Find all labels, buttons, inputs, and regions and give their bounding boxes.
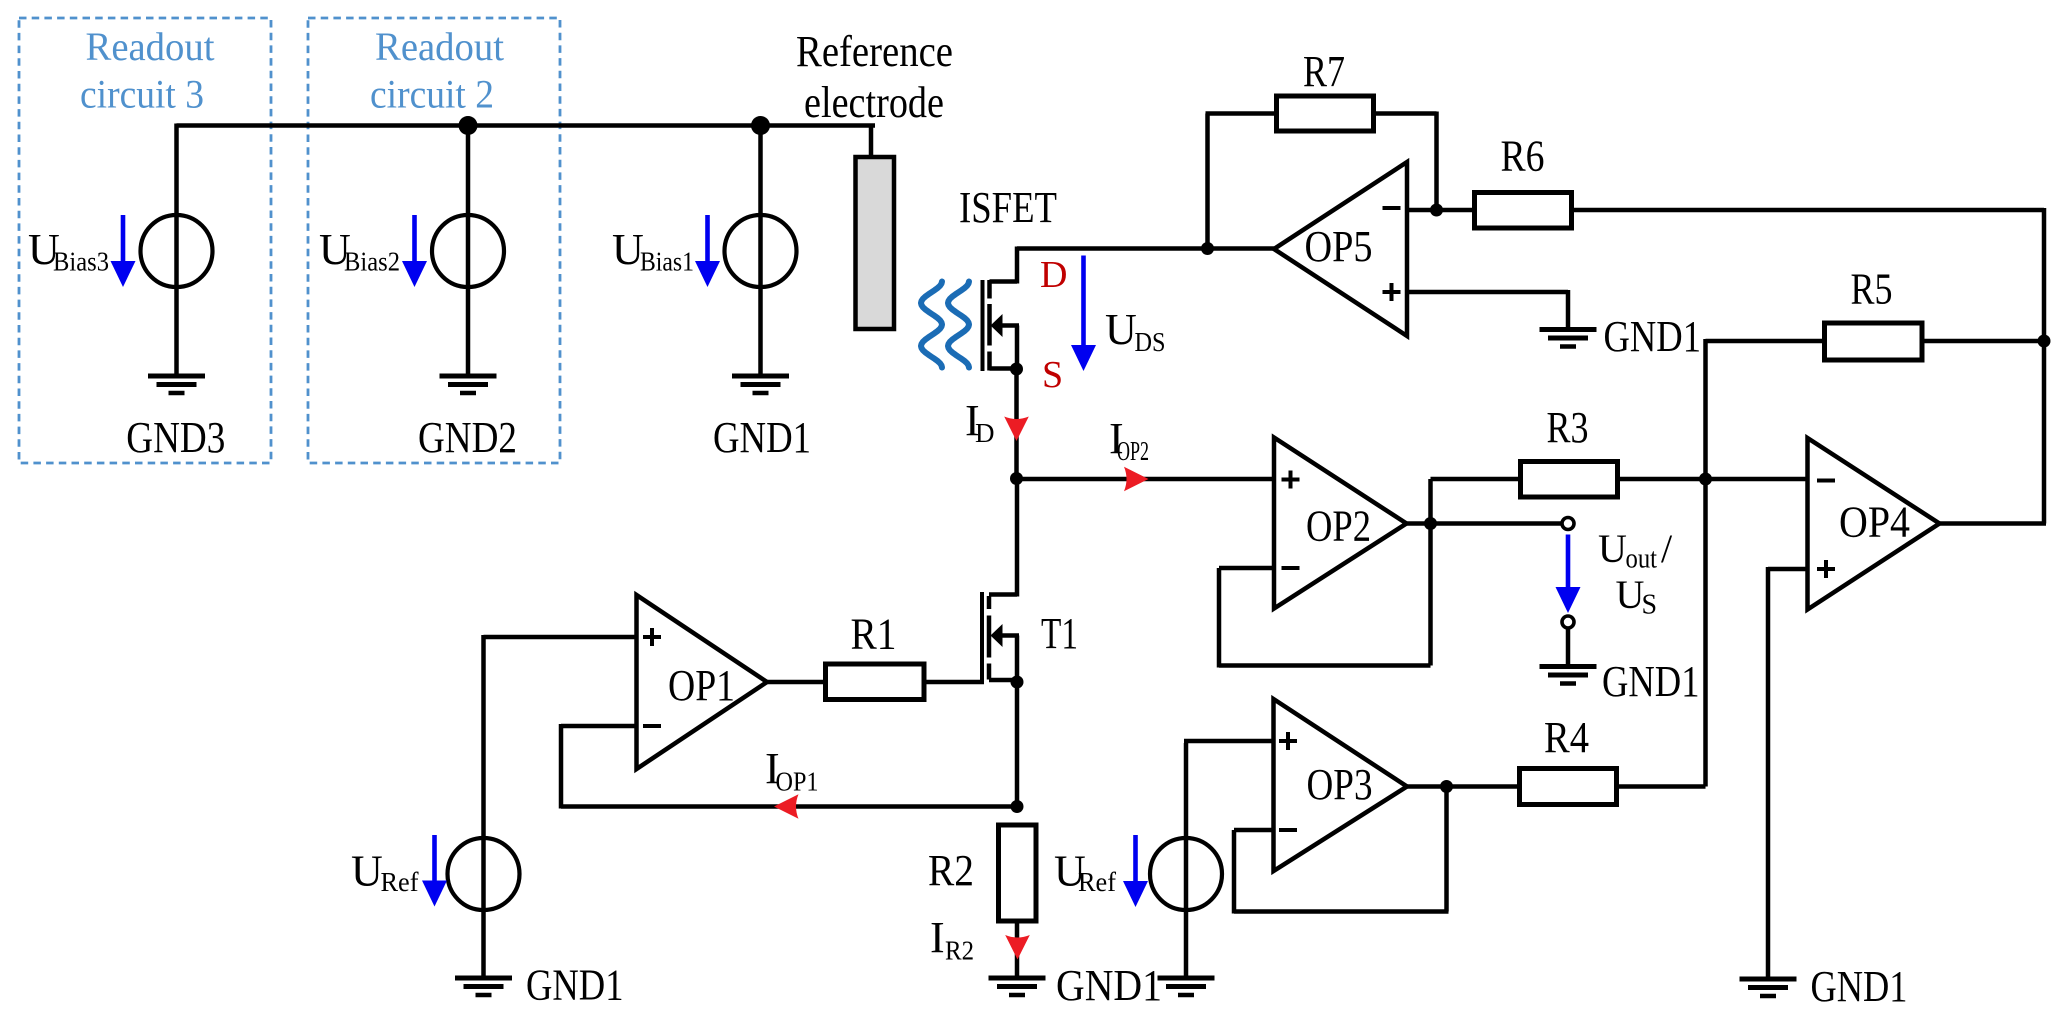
svg-text:R2: R2 bbox=[928, 846, 974, 895]
svg-text:Bias1: Bias1 bbox=[640, 247, 694, 277]
svg-text:GND1: GND1 bbox=[713, 413, 811, 462]
svg-text:R3: R3 bbox=[1547, 403, 1589, 452]
svg-text:circuit 3: circuit 3 bbox=[80, 72, 204, 117]
svg-text:Ref: Ref bbox=[381, 867, 419, 897]
svg-text:ISFET: ISFET bbox=[959, 183, 1057, 232]
svg-text:D: D bbox=[1040, 254, 1067, 296]
svg-text:OP1: OP1 bbox=[776, 767, 819, 797]
svg-text:Bias2: Bias2 bbox=[344, 247, 400, 277]
svg-text:GND1: GND1 bbox=[1811, 962, 1908, 1011]
svg-text:GND1: GND1 bbox=[1602, 657, 1700, 706]
svg-text:R2: R2 bbox=[945, 936, 974, 966]
svg-text:electrode: electrode bbox=[804, 78, 944, 127]
svg-text:OP2: OP2 bbox=[1117, 436, 1149, 466]
svg-text:U: U bbox=[1105, 305, 1137, 354]
svg-text:OP1: OP1 bbox=[668, 661, 735, 710]
svg-text:Bias3: Bias3 bbox=[53, 247, 109, 277]
svg-text:/: / bbox=[1661, 526, 1673, 571]
svg-text:R7: R7 bbox=[1303, 47, 1345, 96]
svg-text:circuit 2: circuit 2 bbox=[370, 72, 494, 117]
svg-text:R1: R1 bbox=[851, 610, 897, 659]
svg-text:GND2: GND2 bbox=[418, 413, 517, 462]
svg-text:Readout: Readout bbox=[375, 24, 504, 69]
svg-text:GND3: GND3 bbox=[126, 413, 225, 462]
svg-text:D: D bbox=[975, 418, 995, 448]
svg-text:GND1: GND1 bbox=[1604, 312, 1702, 361]
svg-text:U: U bbox=[1616, 572, 1645, 617]
svg-text:R4: R4 bbox=[1544, 713, 1589, 762]
svg-text:GND1: GND1 bbox=[1056, 961, 1162, 1010]
svg-text:U: U bbox=[1598, 526, 1627, 571]
svg-text:R6: R6 bbox=[1501, 132, 1545, 181]
svg-text:S: S bbox=[1642, 590, 1658, 621]
svg-text:R5: R5 bbox=[1851, 265, 1893, 314]
svg-text:Reference: Reference bbox=[796, 27, 953, 76]
svg-text:U: U bbox=[612, 225, 644, 274]
svg-text:out: out bbox=[1626, 544, 1658, 575]
svg-text:Ref: Ref bbox=[1078, 867, 1116, 897]
svg-text:OP2: OP2 bbox=[1306, 502, 1371, 551]
svg-text:OP4: OP4 bbox=[1839, 498, 1910, 547]
svg-text:GND1: GND1 bbox=[526, 961, 624, 1010]
svg-text:DS: DS bbox=[1135, 327, 1166, 357]
svg-text:OP3: OP3 bbox=[1307, 760, 1373, 809]
svg-text:Readout: Readout bbox=[86, 24, 215, 69]
svg-text:I: I bbox=[930, 913, 945, 962]
svg-text:T1: T1 bbox=[1041, 609, 1078, 658]
svg-text:U: U bbox=[351, 847, 383, 896]
svg-text:S: S bbox=[1042, 354, 1063, 396]
svg-text:OP5: OP5 bbox=[1305, 222, 1373, 271]
